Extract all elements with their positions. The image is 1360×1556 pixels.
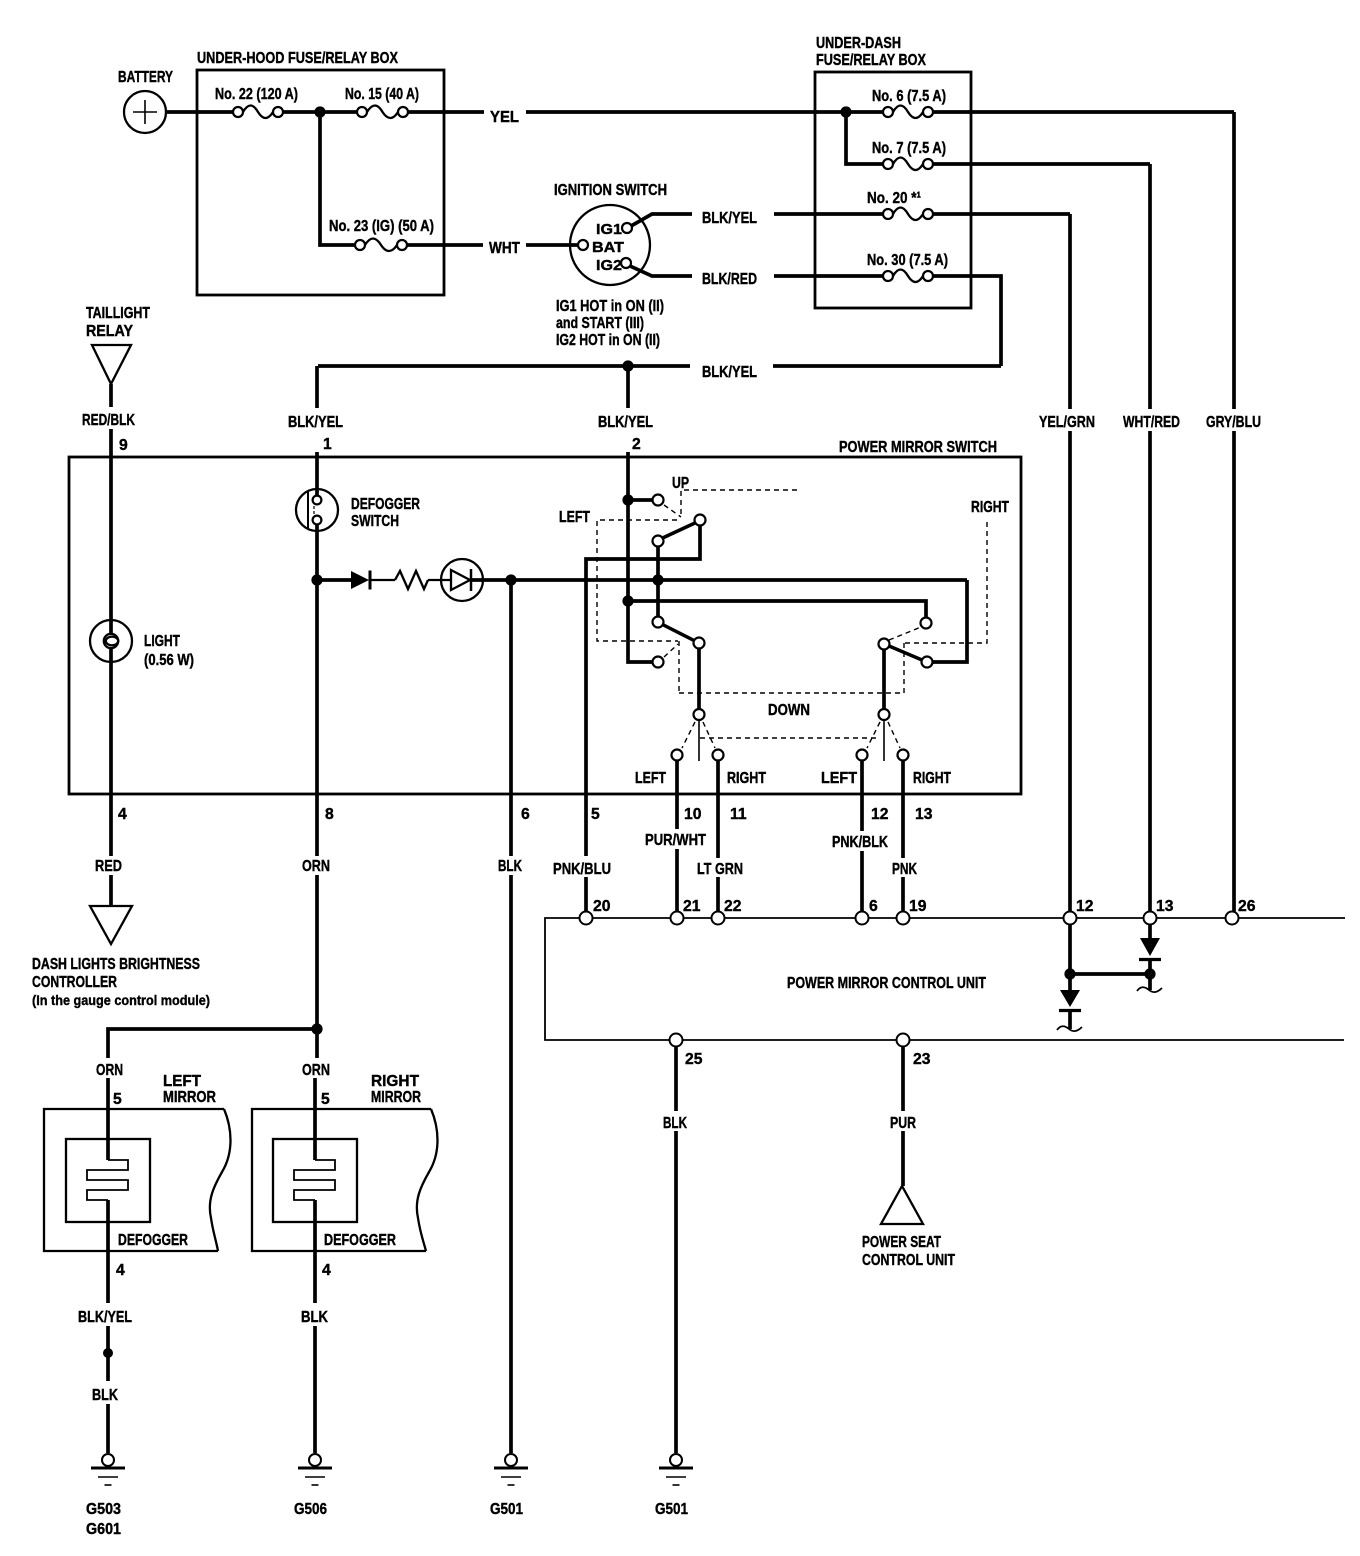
wire WHT	[407, 240, 578, 257]
left mirror defogger box	[66, 1139, 150, 1222]
svg-text:25: 25	[685, 1051, 703, 1068]
svg-text:G506: G506	[294, 1501, 327, 1518]
dash lights brightness controller	[32, 906, 210, 1008]
left defogger element	[87, 1160, 128, 1200]
pin IG2	[621, 258, 631, 268]
svg-text:WHT: WHT	[489, 240, 520, 257]
wire PNK/BLK pin 12	[832, 761, 889, 912]
junction node under-hood	[314, 106, 325, 117]
svg-text:20: 20	[593, 898, 611, 915]
svg-text:No. 22 (120 A): No. 22 (120 A)	[215, 86, 298, 103]
wire BLK/YEL horizontal	[318, 364, 1001, 381]
svg-text:6: 6	[521, 806, 530, 823]
junction node YEL	[840, 106, 851, 117]
svg-text:POWER SEAT: POWER SEAT	[862, 1234, 941, 1251]
pin BAT	[578, 240, 588, 250]
fuse No. 22 (120 A)	[215, 86, 298, 118]
junction node UP stub	[622, 494, 633, 505]
svg-text:BLK/YEL: BLK/YEL	[702, 364, 757, 381]
svg-text:RIGHT: RIGHT	[371, 1073, 419, 1090]
svg-text:PNK: PNK	[892, 861, 917, 878]
left mirror box	[44, 1109, 231, 1251]
svg-text:WHT/RED: WHT/RED	[1123, 414, 1180, 431]
junction node illumination line	[652, 574, 663, 585]
wire BLK/RED from IG2	[630, 266, 883, 288]
wire right switch return	[933, 580, 967, 662]
svg-text:LEFT: LEFT	[635, 770, 666, 787]
svg-text:TAILLIGHT: TAILLIGHT	[86, 305, 150, 322]
contact A	[653, 495, 664, 506]
fuse No. 23 (IG) (50 A)	[329, 218, 434, 251]
contact G	[694, 709, 705, 720]
lever left-up	[662, 523, 697, 539]
pin 23	[897, 1034, 931, 1069]
under-dash fuse/relay box	[815, 35, 971, 308]
svg-text:6: 6	[869, 898, 878, 915]
contact H	[672, 750, 683, 761]
junction node ORN	[311, 1023, 322, 1034]
svg-text:G601: G601	[86, 1521, 121, 1538]
wire ORN left mirror	[96, 1062, 123, 1160]
svg-text:11: 11	[730, 806, 747, 823]
contact C	[653, 536, 664, 547]
wire PUR/WHT pin 10	[645, 761, 706, 912]
pivot E	[694, 638, 705, 649]
actuator shaft right	[883, 720, 885, 761]
svg-text:POWER MIRROR SWITCH: POWER MIRROR SWITCH	[839, 439, 997, 456]
wire common to right switch	[628, 601, 926, 617]
junction node on BLK/YEL 1	[311, 574, 322, 585]
label RIGHT MIRROR	[371, 1073, 421, 1106]
svg-text:UNDER-HOOD FUSE/RELAY BOX: UNDER-HOOD FUSE/RELAY BOX	[197, 50, 398, 67]
svg-text:RIGHT: RIGHT	[913, 770, 951, 787]
svg-text:CONTROLLER: CONTROLLER	[32, 974, 117, 991]
taillight relay	[86, 305, 150, 384]
contact G2	[879, 709, 890, 720]
pin 21	[671, 898, 701, 925]
svg-text:DEFOGGER: DEFOGGER	[324, 1232, 396, 1249]
fuse No. 7 (7.5 A)	[872, 140, 946, 170]
svg-text:BLK: BLK	[498, 858, 522, 875]
linkage dash A diagonal	[664, 505, 681, 517]
svg-text:5: 5	[113, 1091, 122, 1108]
svg-text:1: 1	[323, 436, 332, 453]
contact I2	[898, 750, 909, 761]
svg-text:DASH LIGHTS BRIGHTNESS: DASH LIGHTS BRIGHTNESS	[32, 956, 200, 973]
ground G501 b	[655, 1454, 693, 1518]
svg-text:23: 23	[913, 1051, 931, 1068]
svg-text:LEFT: LEFT	[821, 770, 857, 787]
wire fuse6 to GRY/BLU	[933, 110, 1234, 114]
ground G506	[294, 1454, 332, 1518]
under-hood fuse/relay box	[197, 50, 444, 295]
fuse No. 15 (40 A)	[345, 86, 419, 118]
battery	[118, 69, 173, 133]
svg-text:BLK/RED: BLK/RED	[702, 271, 757, 288]
svg-text:No. 7 (7.5 A): No. 7 (7.5 A)	[872, 140, 946, 157]
svg-text:13: 13	[1156, 898, 1174, 915]
svg-text:DOWN: DOWN	[768, 702, 810, 719]
svg-text:BLK: BLK	[301, 1309, 328, 1326]
svg-text:PNK/BLK: PNK/BLK	[832, 834, 888, 851]
wire PNK pin 13	[892, 761, 933, 912]
resistor R1	[395, 571, 428, 589]
svg-text:No. 20 *¹: No. 20 *¹	[867, 190, 921, 207]
right mirror defogger box	[273, 1139, 357, 1222]
diode D1	[351, 571, 395, 590]
pin 22	[712, 898, 742, 925]
pin IG1	[622, 223, 632, 233]
wire element right	[313, 1200, 317, 1303]
junction node BLK/YEL	[622, 360, 633, 371]
wire fuse7 to WHT/RED	[933, 162, 1150, 166]
wire pin12 internal	[1068, 925, 1072, 975]
svg-text:IG1: IG1	[596, 221, 622, 238]
wire LT GRN pin 11	[697, 761, 747, 912]
wire element left	[106, 1200, 110, 1303]
lever left-down	[663, 625, 696, 642]
svg-text:BLK/YEL: BLK/YEL	[598, 414, 653, 431]
junction node left switch feed	[622, 595, 633, 606]
wire pivot L down	[882, 650, 886, 710]
svg-text:G503: G503	[86, 1501, 121, 1518]
svg-text:PNK/BLU: PNK/BLU	[553, 861, 611, 878]
svg-text:4: 4	[322, 1262, 331, 1279]
right mirror box	[252, 1109, 438, 1251]
wire PNK/BLU pin 5	[553, 806, 611, 912]
pin 20	[580, 898, 611, 925]
ignition switch	[554, 182, 667, 285]
svg-text:YEL/GRN: YEL/GRN	[1039, 414, 1095, 431]
svg-text:BLK: BLK	[663, 1115, 687, 1132]
wire ORN pin 8	[302, 524, 334, 1029]
right defogger element	[294, 1160, 335, 1200]
svg-text:LEFT: LEFT	[559, 509, 590, 526]
svg-text:UNDER-DASH: UNDER-DASH	[816, 35, 901, 52]
wire LED to right contact	[472, 578, 967, 582]
svg-text:2: 2	[632, 436, 641, 453]
wire ORN right mirror	[302, 1029, 330, 1160]
pin 26 unit	[1226, 898, 1256, 925]
svg-text:RED/BLK: RED/BLK	[82, 412, 135, 429]
contact F	[653, 657, 664, 668]
linkage dash lever alt	[889, 627, 921, 640]
wire fuse30 output	[933, 276, 1001, 366]
linkage dashes right fan	[867, 722, 880, 748]
svg-text:BLK/YEL: BLK/YEL	[702, 210, 757, 227]
svg-text:8: 8	[325, 806, 334, 823]
svg-text:BLK/YEL: BLK/YEL	[288, 414, 343, 431]
svg-text:12: 12	[1076, 898, 1094, 915]
fuse No. 6 (7.5 A)	[872, 88, 946, 118]
svg-text:ORN: ORN	[302, 858, 330, 875]
wire fuse22 to fuse15	[283, 110, 357, 114]
pivot B	[695, 515, 706, 526]
pivot L	[879, 639, 890, 650]
svg-text:5: 5	[321, 1091, 330, 1108]
svg-text:LT GRN: LT GRN	[697, 861, 743, 878]
wire BLK/YEL 2	[598, 366, 653, 662]
svg-text:ORN: ORN	[302, 1062, 330, 1079]
svg-text:No. 30 (7.5 A): No. 30 (7.5 A)	[867, 252, 948, 269]
svg-text:RIGHT: RIGHT	[971, 499, 1009, 516]
wire BLK pin 6	[498, 580, 530, 1453]
svg-text:MIRROR: MIRROR	[163, 1089, 216, 1106]
linkage dash crossbar	[700, 737, 880, 739]
pin 13 unit	[1144, 898, 1174, 925]
ground G501 a	[490, 1454, 528, 1518]
power mirror control unit box	[545, 918, 1345, 1040]
svg-text:MIRROR: MIRROR	[371, 1089, 421, 1106]
wire to diode	[317, 578, 351, 582]
svg-text:GRY/BLU: GRY/BLU	[1206, 414, 1261, 431]
svg-text:PUR: PUR	[890, 1115, 916, 1132]
light (0.56 W)	[90, 620, 194, 669]
power seat control unit	[862, 1186, 955, 1269]
wire UP stub	[628, 498, 652, 502]
svg-text:POWER MIRROR CONTROL UNIT: POWER MIRROR CONTROL UNIT	[787, 975, 986, 992]
wire BLK/YEL from IG1	[631, 210, 883, 227]
svg-text:G501: G501	[490, 1501, 523, 1518]
svg-text:26: 26	[1238, 898, 1256, 915]
internal bus	[1070, 972, 1150, 976]
contact I	[713, 750, 724, 761]
wire BLK right mirror	[301, 1309, 328, 1453]
wire GRY/BLU vertical	[1206, 112, 1261, 912]
ignition notes	[556, 298, 664, 349]
diode D3	[1139, 938, 1161, 974]
pin 12 unit	[1064, 898, 1094, 925]
svg-text:No. 6 (7.5 A): No. 6 (7.5 A)	[872, 88, 946, 105]
svg-text:BLK: BLK	[92, 1387, 118, 1404]
wire pivot E down	[697, 649, 701, 710]
fuse No. 30 (7.5 A)	[867, 252, 948, 282]
linkage dash RIGHT box	[905, 518, 987, 643]
linkage dash LEFT box	[597, 520, 679, 693]
linkage dash DOWN box	[679, 643, 904, 693]
svg-text:10: 10	[684, 806, 702, 823]
svg-text:IG1 HOT in ON (II): IG1 HOT in ON (II)	[556, 298, 664, 315]
actuator shaft left	[698, 720, 700, 761]
junction node 13	[1144, 968, 1155, 979]
fuse No. 20	[867, 190, 933, 220]
svg-text:19: 19	[909, 898, 927, 915]
LED / illumination diode	[441, 559, 483, 601]
wire RED/BLK pin 9	[82, 384, 135, 633]
contact D	[653, 617, 664, 628]
svg-text:(In the gauge control module): (In the gauge control module)	[32, 992, 210, 1008]
svg-text:21: 21	[683, 898, 701, 915]
diode D2	[1057, 974, 1082, 1031]
svg-text:4: 4	[116, 1262, 125, 1279]
linkage dashes left fan	[682, 722, 695, 748]
svg-text:12: 12	[871, 806, 889, 823]
svg-text:RIGHT: RIGHT	[727, 770, 766, 787]
svg-text:4: 4	[118, 806, 127, 823]
wire fuse20 to YEL/GRN	[933, 212, 1070, 216]
svg-text:No. 15 (40 A): No. 15 (40 A)	[345, 86, 419, 103]
wire BLK/YEL 1	[288, 366, 343, 496]
svg-text:BLK/YEL: BLK/YEL	[78, 1309, 132, 1326]
wire YEL	[408, 109, 883, 126]
wire pin13 internal to diode	[1148, 925, 1152, 939]
svg-text:SWITCH: SWITCH	[351, 513, 399, 530]
svg-text:22: 22	[724, 898, 742, 915]
svg-text:IG2 HOT in ON (II): IG2 HOT in ON (II)	[556, 332, 660, 349]
label LEFT MIRROR	[163, 1073, 216, 1106]
svg-text:IGNITION SWITCH: IGNITION SWITCH	[554, 182, 667, 199]
lever right	[889, 646, 922, 660]
pin 6	[856, 898, 879, 925]
svg-text:and START (III): and START (III)	[556, 315, 644, 332]
junction node pin6	[505, 574, 516, 585]
svg-text:BAT: BAT	[592, 239, 624, 256]
svg-text:CONTROL UNIT: CONTROL UNIT	[862, 1252, 955, 1269]
svg-text:RELAY: RELAY	[86, 323, 133, 340]
stub below node 13	[1137, 974, 1162, 992]
svg-text:LIGHT: LIGHT	[144, 633, 180, 650]
svg-text:No. 23 (IG) (50 A): No. 23 (IG) (50 A)	[329, 218, 434, 235]
svg-text:PUR/WHT: PUR/WHT	[645, 832, 706, 849]
svg-text:IG2: IG2	[596, 257, 622, 274]
svg-text:YEL: YEL	[490, 109, 519, 126]
contact J	[921, 618, 932, 629]
svg-text:BATTERY: BATTERY	[118, 69, 173, 86]
wire WHT/RED vertical	[1123, 164, 1180, 912]
wire to fuse 23	[320, 112, 355, 245]
wire PUR pin 23	[890, 1047, 916, 1187]
power mirror switch box	[69, 439, 1021, 794]
wire RED pin 4	[95, 649, 127, 906]
svg-text:5: 5	[591, 806, 600, 823]
wire battery to under-hood box	[166, 110, 233, 114]
wire BLK pin 25	[663, 1047, 687, 1454]
svg-text:G501: G501	[655, 1501, 688, 1518]
wire YEL/GRN vertical	[1039, 214, 1095, 912]
contact K	[922, 657, 933, 668]
pin 19	[897, 898, 927, 925]
wire BLK/YEL to ground	[78, 1309, 132, 1453]
defogger switch	[296, 489, 420, 531]
wire ORN branch	[108, 1029, 317, 1058]
wire resistor to LED	[428, 579, 451, 581]
svg-text:RED: RED	[95, 858, 122, 875]
wire pivot B to pin 5	[586, 526, 700, 857]
pin 25	[670, 1034, 703, 1069]
svg-text:LEFT: LEFT	[163, 1073, 201, 1090]
ground G503/G601	[86, 1454, 125, 1538]
wire to fuse 7	[846, 112, 883, 164]
svg-text:9: 9	[119, 437, 128, 454]
svg-text:ORN: ORN	[96, 1062, 123, 1079]
svg-text:(0.56 W): (0.56 W)	[144, 652, 194, 669]
contact H2	[857, 750, 868, 761]
svg-text:DEFOGGER: DEFOGGER	[351, 496, 420, 513]
svg-text:DEFOGGER: DEFOGGER	[118, 1232, 188, 1249]
linkage dash UP box	[681, 490, 797, 517]
junction node 12	[1064, 968, 1075, 979]
svg-text:13: 13	[915, 806, 933, 823]
svg-text:FUSE/RELAY BOX: FUSE/RELAY BOX	[816, 52, 926, 69]
wire contact C to D	[656, 546, 660, 616]
